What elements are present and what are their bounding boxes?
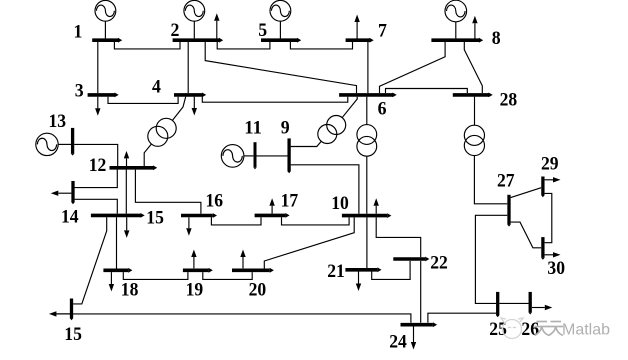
wire 17-10 <box>282 217 350 225</box>
label bus 10 <box>331 193 349 214</box>
bus 27 <box>507 195 511 227</box>
transformer T2 (6-9) <box>318 116 346 144</box>
wire 6-28 <box>386 89 468 94</box>
svg-text:9: 9 <box>281 118 290 139</box>
transformer T4 (28-27) <box>464 125 484 155</box>
bus 24 <box>401 322 438 327</box>
transformer T1 (4-12) <box>148 118 176 146</box>
svg-text:26: 26 <box>521 319 539 340</box>
svg-text:24: 24 <box>389 332 407 353</box>
label bus 21 <box>327 261 345 282</box>
wire 15-23 <box>73 217 107 304</box>
label bus 27 <box>497 170 515 191</box>
wire 2-6 <box>205 42 356 93</box>
label bus 20 <box>249 280 267 301</box>
wire 21-22 <box>372 261 410 280</box>
bus 30 <box>541 237 545 260</box>
label bus 16 <box>206 191 224 212</box>
bus 23 (labelled 15) <box>70 299 74 321</box>
wire 15-18 <box>116 217 118 268</box>
svg-text:30: 30 <box>547 258 565 279</box>
wire 5-7 <box>290 42 352 49</box>
wire 9 to transformer T2 <box>291 141 322 146</box>
svg-text:15: 15 <box>64 324 82 345</box>
generator G8 at bus 8 <box>445 0 467 38</box>
svg-text:6: 6 <box>378 99 387 120</box>
load arrow bus 10 (up) <box>374 198 379 214</box>
wire 11-9 <box>257 155 288 157</box>
load arrow bus 16 (down) <box>186 217 191 236</box>
wire 1-3 <box>97 42 99 93</box>
bus 8 <box>431 38 483 43</box>
label bus 5 <box>258 20 267 41</box>
bus 13 <box>71 128 75 156</box>
bus 12 <box>110 165 158 170</box>
wire 27-30 <box>511 222 542 248</box>
bus 25 <box>496 292 500 317</box>
svg-text:22: 22 <box>430 252 448 273</box>
svg-text:8: 8 <box>492 28 501 49</box>
bus 16 <box>181 213 217 218</box>
wire 18-19 <box>123 272 188 279</box>
wire transformer T2 to bus 6 <box>342 97 357 118</box>
watermark text Matlab <box>562 322 610 339</box>
svg-text:21: 21 <box>327 261 345 282</box>
wire 25-26 <box>499 302 528 304</box>
bus 7 <box>346 38 374 43</box>
load arrow bus 17 (up) <box>269 198 274 213</box>
bus 22 <box>393 257 429 262</box>
svg-text:18: 18 <box>121 280 139 301</box>
svg-text:15: 15 <box>146 208 164 229</box>
bus 10 <box>342 213 392 218</box>
label bus 2 <box>171 20 180 41</box>
wire 10-21 <box>366 217 368 268</box>
load arrow bus 23 (left) <box>49 311 71 316</box>
wire 9-10 <box>291 165 359 214</box>
wire 29-30 <box>545 193 552 242</box>
label bus 13 <box>49 111 67 132</box>
svg-text:10: 10 <box>331 193 349 214</box>
label bus 25 <box>489 319 507 340</box>
bus 6 <box>339 93 397 98</box>
load arrow bus 12 (up) <box>124 151 129 166</box>
wire 1-2 <box>114 42 180 49</box>
wire 10-22 <box>376 217 421 257</box>
watermark glyph tian 1 <box>535 322 550 336</box>
transformer T3 (6-10) <box>357 125 377 157</box>
label bus 9 <box>281 118 290 139</box>
svg-text:2: 2 <box>171 20 180 41</box>
wire 14-15 <box>75 199 118 213</box>
label bus 29 <box>541 153 559 174</box>
bus 14 <box>71 181 75 204</box>
wire 3-4 <box>108 97 178 104</box>
bus 17 <box>255 213 290 218</box>
wire 27-29 <box>511 188 542 198</box>
label bus 23 (shown as 15) <box>64 324 82 345</box>
svg-text:12: 12 <box>89 155 107 176</box>
wire 2-4 <box>187 42 189 93</box>
load arrow bus 8 (up) <box>472 16 477 39</box>
svg-text:29: 29 <box>541 153 559 174</box>
wire 6 to transformer T3 <box>366 97 368 125</box>
wire 4 to transformer T1 <box>172 97 185 121</box>
svg-text:17: 17 <box>281 191 299 212</box>
wire 7-6 <box>367 42 369 93</box>
load arrow bus 26 (right) <box>532 305 552 310</box>
svg-text:27: 27 <box>497 170 515 191</box>
wire 28 to transformer T4 <box>474 97 476 126</box>
watermark glyph tian 2 <box>549 322 564 336</box>
generator G2 at bus 2 <box>184 0 205 38</box>
label bus 24 <box>389 332 407 353</box>
generator G5 at bus 5 <box>270 0 291 38</box>
bus 15 <box>91 213 145 218</box>
bus 4 <box>174 93 206 98</box>
bus 26 <box>528 292 532 315</box>
wire 12-14 <box>75 170 118 188</box>
svg-text:Matlab: Matlab <box>562 322 610 339</box>
label bus 19 <box>186 280 204 301</box>
load arrow bus 29 (right) <box>545 177 561 182</box>
wire 13-12 <box>74 144 118 166</box>
watermark logo circle <box>501 318 523 339</box>
bus 2 <box>173 38 224 43</box>
label bus 3 <box>75 81 84 102</box>
wire 22-24 <box>420 261 422 323</box>
bus 3 <box>88 93 119 98</box>
label bus 26 <box>521 319 539 340</box>
wire 8-6 <box>380 42 446 93</box>
bus 19 <box>183 268 213 273</box>
bus 9 <box>287 138 291 173</box>
label bus 22 <box>430 252 448 273</box>
svg-text:16: 16 <box>206 191 224 212</box>
load arrow bus 24 (down) <box>411 327 416 350</box>
generator G1 at bus 1 <box>95 0 116 38</box>
bus 20 <box>232 268 274 273</box>
wire 16-17 <box>211 217 261 225</box>
label bus 6 <box>378 99 387 120</box>
wire 19-20 <box>203 272 252 279</box>
load arrow bus 7 (up) <box>354 15 359 40</box>
load arrow bus 2 (up) <box>214 13 219 39</box>
label bus 8 <box>492 28 501 49</box>
bus 21 <box>345 267 381 272</box>
load arrow bus 18 (down) <box>109 272 114 291</box>
svg-text:7: 7 <box>378 21 387 42</box>
label bus 17 <box>281 191 299 212</box>
wire transformer T4 to bus 27 <box>474 156 507 204</box>
label bus 7 <box>378 21 387 42</box>
load arrow bus 14 (left) <box>51 191 72 196</box>
svg-text:19: 19 <box>186 280 204 301</box>
load arrow bus 21 (down) <box>356 272 361 292</box>
wire 8-28 <box>464 42 482 93</box>
svg-text:1: 1 <box>74 21 83 42</box>
wire 10-20 <box>264 217 354 268</box>
label bus 14 <box>61 207 79 228</box>
load arrow bus 19 (up) <box>191 250 196 269</box>
label bus 4 <box>152 76 161 97</box>
wire 23-24 <box>56 314 411 323</box>
bus 28 <box>453 93 493 98</box>
bus 5 <box>261 38 301 43</box>
wire 12-15 <box>125 170 127 214</box>
wire transformer T1 to bus 12 <box>144 144 151 166</box>
bus 1 <box>92 38 122 43</box>
svg-text:14: 14 <box>61 207 79 228</box>
wire transformer T3 to bus 10 <box>366 156 368 214</box>
svg-text:20: 20 <box>249 280 267 301</box>
load arrow bus 4 (down) <box>192 97 197 116</box>
label bus 12 <box>89 155 107 176</box>
svg-text:25: 25 <box>489 319 507 340</box>
wire 2-5 <box>217 42 270 49</box>
svg-text:4: 4 <box>152 76 161 97</box>
svg-text:13: 13 <box>49 111 67 132</box>
generator G13 at bus 13 <box>36 133 71 155</box>
svg-text:11: 11 <box>244 118 262 139</box>
wire 24-25 <box>428 313 496 323</box>
bus 18 <box>103 268 132 273</box>
label bus 28 <box>500 89 518 110</box>
label bus 30 <box>547 258 565 279</box>
svg-text:28: 28 <box>500 89 518 110</box>
wire 4-6 <box>202 97 347 103</box>
bus 11 <box>253 142 256 169</box>
label bus 1 <box>74 21 83 42</box>
load arrow bus 3 (down) <box>95 97 100 116</box>
load arrow bus 30 (right) <box>545 252 561 257</box>
wire 12-16 <box>135 170 201 214</box>
generator G11 at bus 11 <box>221 145 253 168</box>
wire 25-27 <box>475 215 507 303</box>
label bus 11 <box>244 118 262 139</box>
load arrow bus 20 (up) <box>240 250 245 269</box>
bus 29 <box>541 177 545 198</box>
svg-text:5: 5 <box>258 20 267 41</box>
label bus 18 <box>121 280 139 301</box>
label bus 15 <box>146 208 164 229</box>
load arrow bus 15 (down) <box>124 217 129 238</box>
svg-text:3: 3 <box>75 81 84 102</box>
